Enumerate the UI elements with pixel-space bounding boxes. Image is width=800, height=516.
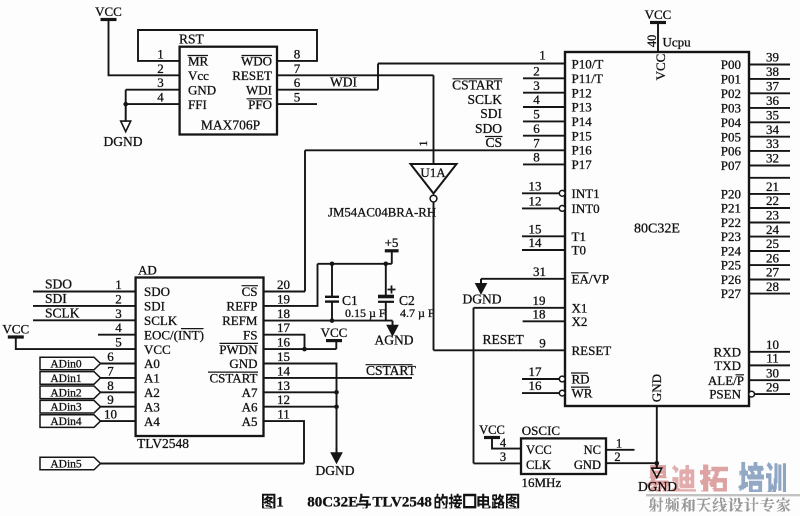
wire cap top rail (318, 263, 392, 265)
svg-text:9: 9 (539, 335, 546, 350)
plus sign C2 (388, 289, 396, 291)
svg-text:P05: P05 (721, 129, 741, 144)
wire EOC stub (98, 334, 136, 336)
wire MAX706P pin5 PFO stub (277, 103, 317, 105)
svg-text:8: 8 (533, 150, 540, 165)
svg-text:DGND: DGND (104, 134, 143, 149)
pin INT1 (522, 192, 559, 194)
wire inverter output down (433, 202, 435, 350)
svg-text:21: 21 (766, 179, 779, 194)
svg-text:16MHz: 16MHz (522, 475, 562, 490)
wire CS net to 80C32E pin7 (305, 149, 565, 151)
svg-text:VCC: VCC (653, 54, 668, 81)
wire MAX706P pin6 WDI (277, 89, 378, 91)
svg-text:14: 14 (529, 235, 543, 250)
svg-text:P00: P00 (721, 57, 741, 72)
svg-text:A7: A7 (242, 385, 258, 400)
svg-text:DGND: DGND (463, 292, 502, 307)
svg-text:VCC: VCC (321, 325, 348, 340)
svg-text:1: 1 (115, 277, 122, 292)
wire X1 (474, 307, 566, 309)
svg-text:P13: P13 (572, 100, 592, 115)
svg-text:0.15 µ F: 0.15 µ F (345, 306, 386, 320)
svg-text:5: 5 (294, 90, 301, 105)
svg-text:P14: P14 (572, 114, 593, 129)
svg-text:28: 28 (766, 279, 779, 294)
svg-text:T0: T0 (572, 243, 586, 258)
svg-text:INT0: INT0 (572, 201, 600, 216)
svg-text:FS: FS (243, 327, 257, 342)
wire pin40 VCC (657, 23, 659, 53)
node ADin1 (40, 372, 101, 385)
svg-text:80C32E: 80C32E (634, 222, 680, 237)
wire GND pin2 to DGND (606, 462, 657, 464)
wire pin19 REFP up (264, 264, 318, 306)
ground DGND (480, 279, 482, 285)
wire pin17 FS down (264, 335, 305, 349)
svg-text:RESET: RESET (572, 343, 612, 358)
svg-text:A3: A3 (144, 399, 160, 414)
power +5 (385, 249, 399, 252)
svg-text:8: 8 (294, 46, 301, 61)
svg-text:P07: P07 (721, 158, 742, 173)
wire VCC drop (335, 341, 337, 350)
wire SDI (33, 305, 136, 307)
junction C1 bottom (330, 318, 335, 323)
svg-text:17: 17 (529, 364, 543, 379)
pin T1 stub (522, 235, 565, 237)
power VCC top-left (101, 18, 117, 21)
svg-text:24: 24 (766, 222, 780, 237)
wire RST loop MR to WDO (138, 30, 317, 61)
wire GND-FFI vertical (125, 90, 127, 104)
svg-text:VCC: VCC (144, 342, 171, 357)
node ADin5 (40, 457, 101, 470)
svg-text:X2: X2 (572, 314, 588, 329)
svg-text:13: 13 (277, 378, 290, 393)
svg-text:ADin4: ADin4 (50, 416, 82, 428)
svg-text:SDO: SDO (45, 277, 72, 292)
junction FS-PWDN (302, 347, 307, 352)
svg-text:FFI: FFI (188, 97, 207, 112)
watermark char 易 (646, 465, 668, 492)
junction GND node (655, 461, 660, 466)
node ADin4 (40, 415, 101, 428)
svg-text:7: 7 (294, 61, 301, 76)
svg-text:4: 4 (533, 92, 540, 107)
ground AGND (392, 321, 394, 327)
svg-text:CS: CS (242, 284, 258, 299)
svg-text:A6: A6 (242, 399, 258, 414)
svg-text:3: 3 (157, 75, 164, 90)
svg-text:VCC: VCC (526, 443, 552, 457)
svg-text:WDI: WDI (330, 75, 357, 90)
junction C1 top (330, 262, 335, 267)
pin X2 stub (523, 320, 565, 322)
wire MAX706P pin3 GND (126, 89, 180, 91)
svg-text:P17: P17 (572, 157, 593, 172)
svg-text:29: 29 (766, 379, 779, 394)
svg-text:EOC/(INT): EOC/(INT) (144, 327, 204, 342)
svg-text:P24: P24 (721, 244, 742, 259)
svg-text:36: 36 (766, 93, 780, 108)
svg-text:3: 3 (500, 450, 506, 464)
bubble INT0 (559, 206, 565, 212)
bubble INT1 (559, 190, 565, 196)
svg-text:TXD: TXD (714, 358, 741, 373)
svg-text:P10/T: P10/T (572, 57, 604, 72)
svg-text:39: 39 (766, 50, 779, 65)
svg-text:3: 3 (533, 78, 540, 93)
wire NC pin1 (606, 449, 635, 451)
wire MAX706P pin7 RESET to inverter (277, 74, 434, 76)
inverter output bubble U1A (430, 195, 437, 202)
svg-text:2: 2 (157, 61, 164, 76)
bubble PSEN (749, 391, 755, 397)
wire VCC to MAX706P pin2 (109, 20, 180, 76)
svg-text:14: 14 (277, 363, 291, 378)
svg-text:38: 38 (766, 64, 779, 79)
unnumbered stub right (749, 177, 790, 179)
svg-text:REFM: REFM (222, 313, 258, 328)
svg-text:ADin1: ADin1 (50, 373, 82, 385)
svg-text:GND: GND (229, 356, 257, 371)
watermark char 培 (739, 462, 764, 492)
svg-text:P12: P12 (572, 85, 592, 100)
wire pin12 A6 (264, 406, 337, 408)
svg-text:3: 3 (115, 306, 122, 321)
svg-text:37: 37 (766, 79, 780, 94)
wire pin14 CSTART (264, 377, 413, 379)
svg-text:17: 17 (277, 320, 291, 335)
svg-text:REFP: REFP (226, 299, 257, 314)
wire SDO (33, 291, 136, 293)
IC U2 MAX706P body (180, 47, 277, 135)
svg-text:RESET: RESET (483, 332, 525, 347)
junction A6 (334, 404, 339, 409)
svg-text:RESET: RESET (232, 68, 272, 83)
svg-text:GND: GND (188, 82, 216, 97)
node ADin0 (40, 357, 101, 370)
svg-text:9: 9 (107, 392, 114, 407)
svg-text:13: 13 (529, 178, 542, 193)
svg-text:SCLK: SCLK (144, 313, 178, 328)
wire P10/T to WDI net (378, 63, 565, 65)
svg-text:P06: P06 (721, 144, 742, 159)
svg-text:11: 11 (277, 407, 290, 422)
power VCC mid (326, 339, 342, 342)
wire WDI vertical jog (377, 64, 379, 90)
svg-text:1: 1 (157, 46, 164, 61)
node ADin2 (40, 386, 101, 399)
svg-text:SDI: SDI (144, 299, 165, 314)
svg-text:4: 4 (157, 90, 164, 105)
wire pin18 REFM to AGND (264, 320, 393, 322)
junction C2 top (384, 262, 389, 267)
svg-text:P01: P01 (721, 72, 741, 87)
svg-text:5: 5 (533, 107, 540, 122)
svg-text:P23: P23 (721, 229, 741, 244)
IC U4 TLV2548 body (136, 278, 264, 437)
svg-text:6: 6 (294, 75, 301, 90)
svg-text:16: 16 (529, 378, 543, 393)
svg-text:PSEN: PSEN (709, 387, 741, 402)
wire GND down (656, 406, 658, 463)
svg-text:5: 5 (115, 335, 122, 350)
svg-text:27: 27 (766, 265, 780, 280)
svg-text:TLV2548: TLV2548 (137, 436, 189, 451)
junction A7 (334, 390, 339, 395)
svg-text:SCLK: SCLK (45, 306, 80, 321)
svg-text:CLK: CLK (526, 458, 551, 472)
svg-text:WR: WR (572, 386, 593, 401)
watermark char 迪 (672, 465, 697, 492)
svg-text:2: 2 (533, 64, 540, 79)
power VCC left (8, 335, 24, 338)
svg-text:A2: A2 (144, 385, 160, 400)
ground DGND (125, 104, 127, 122)
svg-text:6: 6 (533, 121, 540, 136)
node ADin3 (40, 400, 101, 413)
caption 图1 80C32E与TLV2548的接口电路图 (262, 494, 275, 509)
svg-text:GND: GND (649, 374, 664, 402)
svg-text:A1: A1 (144, 371, 160, 386)
bubble RD (559, 376, 565, 382)
svg-text:12: 12 (529, 193, 542, 208)
ground DGND (656, 463, 658, 469)
svg-text:1: 1 (416, 141, 430, 147)
svg-text:ADin3: ADin3 (50, 402, 82, 414)
svg-text:P16: P16 (572, 143, 593, 158)
pin T0 stub (522, 249, 565, 251)
svg-text:P02: P02 (721, 86, 741, 101)
svg-text:4.7 µ F: 4.7 µ F (400, 306, 435, 320)
svg-text:30: 30 (766, 365, 779, 380)
svg-text:P22: P22 (721, 215, 741, 230)
svg-text:P25: P25 (721, 258, 741, 273)
bubble WR (559, 390, 565, 396)
svg-text:A0: A0 (144, 356, 160, 371)
svg-text:40: 40 (645, 35, 659, 48)
svg-text:7: 7 (107, 363, 114, 378)
svg-text:15: 15 (277, 349, 290, 364)
svg-text:18: 18 (277, 306, 290, 321)
svg-text:JM54AC04BRA-RH: JM54AC04BRA-RH (328, 206, 436, 220)
wire +5 drop (391, 251, 393, 264)
svg-text:Ucpu: Ucpu (663, 35, 692, 50)
wire MAX706P pin4 FFI (126, 103, 180, 105)
svg-text:SDO: SDO (475, 121, 502, 136)
svg-text:2: 2 (614, 450, 620, 464)
svg-text:P26: P26 (721, 272, 742, 287)
svg-text:7: 7 (533, 135, 540, 150)
svg-text:18: 18 (533, 306, 546, 321)
capacitor C1 (331, 264, 333, 296)
svg-text:PWDN: PWDN (219, 342, 258, 357)
wire pin20 CS (264, 291, 306, 293)
wire CS vertical from TLV2548 pin20 (304, 150, 306, 291)
svg-text:32: 32 (766, 151, 779, 166)
svg-text:34: 34 (766, 122, 780, 137)
svg-text:VCC: VCC (645, 7, 672, 22)
svg-text:Vcc: Vcc (188, 68, 209, 83)
svg-text:11: 11 (766, 351, 779, 366)
wire pin16 PWDN (264, 348, 337, 350)
wire RESET to 80C32E pin9 (434, 349, 566, 351)
svg-text:1: 1 (539, 48, 546, 63)
svg-text:RD: RD (572, 372, 590, 387)
watermark char 拓 (700, 465, 728, 492)
pin INT0 (522, 207, 559, 209)
svg-text:DGND: DGND (316, 463, 355, 478)
svg-text:SDO: SDO (144, 284, 170, 299)
svg-text:INT1: INT1 (572, 186, 600, 201)
svg-text:SDI: SDI (480, 106, 502, 121)
svg-text:ADin2: ADin2 (50, 387, 82, 399)
svg-text:26: 26 (766, 250, 780, 265)
svg-text:AD: AD (138, 263, 157, 278)
pin WR (522, 392, 559, 394)
svg-text:33: 33 (766, 136, 779, 151)
svg-text:23: 23 (766, 208, 779, 223)
wire ADin5 (101, 463, 305, 465)
wire X1 to OSCIC CLK vertical (473, 308, 475, 464)
power VCC OSCIC (484, 436, 500, 439)
svg-text:A5: A5 (242, 414, 258, 429)
wire inverter input vertical (433, 75, 435, 164)
svg-text:ADin5: ADin5 (50, 459, 82, 471)
svg-text:31: 31 (533, 264, 546, 279)
wire EA/VP (481, 278, 565, 280)
watermark char 训 (766, 462, 786, 492)
svg-text:2: 2 (115, 291, 122, 306)
svg-text:35: 35 (766, 108, 779, 123)
wire pin13 A7 (264, 391, 337, 393)
svg-text:P03: P03 (721, 101, 741, 116)
svg-text:EA/VP: EA/VP (572, 271, 610, 286)
svg-text:MAX706P: MAX706P (201, 118, 260, 133)
ground DGND (336, 448, 338, 454)
svg-text:NC: NC (584, 443, 601, 457)
wire VCC to TLV pin5 (16, 337, 136, 349)
wire SCLK (33, 319, 136, 321)
svg-text:10: 10 (104, 407, 117, 422)
svg-text:OSCIC: OSCIC (522, 423, 560, 438)
svg-text:P20: P20 (721, 187, 741, 202)
svg-text:ADin0: ADin0 (50, 359, 82, 371)
svg-text:12: 12 (277, 392, 290, 407)
svg-text:4: 4 (500, 436, 507, 450)
svg-text:P21: P21 (721, 201, 741, 216)
svg-text:GND: GND (574, 458, 601, 472)
svg-text:+5: +5 (385, 235, 399, 250)
svg-text:19: 19 (277, 291, 290, 306)
wire ADin5 to pin11 (264, 421, 305, 463)
wire VCC to OSCIC pin4 (492, 438, 521, 449)
svg-text:VCC: VCC (95, 4, 122, 19)
capacitor C2 polarized (385, 264, 387, 295)
svg-text:RST: RST (179, 32, 205, 47)
svg-text:CSTART: CSTART (209, 371, 257, 386)
svg-text:22: 22 (766, 193, 779, 208)
svg-text:1: 1 (616, 437, 622, 451)
svg-text:20: 20 (277, 277, 290, 292)
svg-text:P15: P15 (572, 128, 592, 143)
svg-text:VCC: VCC (2, 322, 29, 337)
watermark logo (646, 462, 800, 511)
junction FFI node (123, 102, 128, 107)
svg-text:1: 1 (276, 495, 284, 511)
pin stubs 80C32E pins 2-6,8 (523, 77, 565, 79)
power VCC Ucpu (650, 21, 666, 24)
wire CLK pin3 (474, 462, 522, 464)
IC U5 OSCIC body (521, 438, 606, 474)
svg-text:TLV2548: TLV2548 (372, 495, 431, 511)
IC U1 80C32E body (565, 52, 749, 406)
svg-text:8: 8 (107, 378, 114, 393)
svg-text:4: 4 (115, 320, 122, 335)
svg-text:P04: P04 (721, 115, 742, 130)
watermark subtitle (649, 498, 663, 512)
svg-text:80C32E: 80C32E (307, 495, 358, 511)
svg-text:P27: P27 (721, 286, 742, 301)
svg-text:6: 6 (107, 349, 114, 364)
pin RD (522, 378, 559, 380)
svg-text:P11/T: P11/T (572, 71, 603, 86)
svg-text:SCLK: SCLK (467, 92, 502, 107)
svg-text:CSTART: CSTART (452, 77, 503, 92)
svg-text:WDI: WDI (246, 82, 272, 97)
wire pin15 GND down (264, 364, 337, 451)
svg-text:A4: A4 (144, 414, 160, 429)
svg-text:16: 16 (277, 335, 291, 350)
svg-text:U1A: U1A (420, 165, 446, 180)
op-amp U1A inverter JM54AC04BRA-RH (411, 164, 457, 194)
svg-text:AGND: AGND (375, 333, 414, 348)
svg-text:25: 25 (766, 236, 779, 251)
svg-text:SDI: SDI (45, 291, 67, 306)
svg-text:CSTART: CSTART (366, 363, 417, 378)
